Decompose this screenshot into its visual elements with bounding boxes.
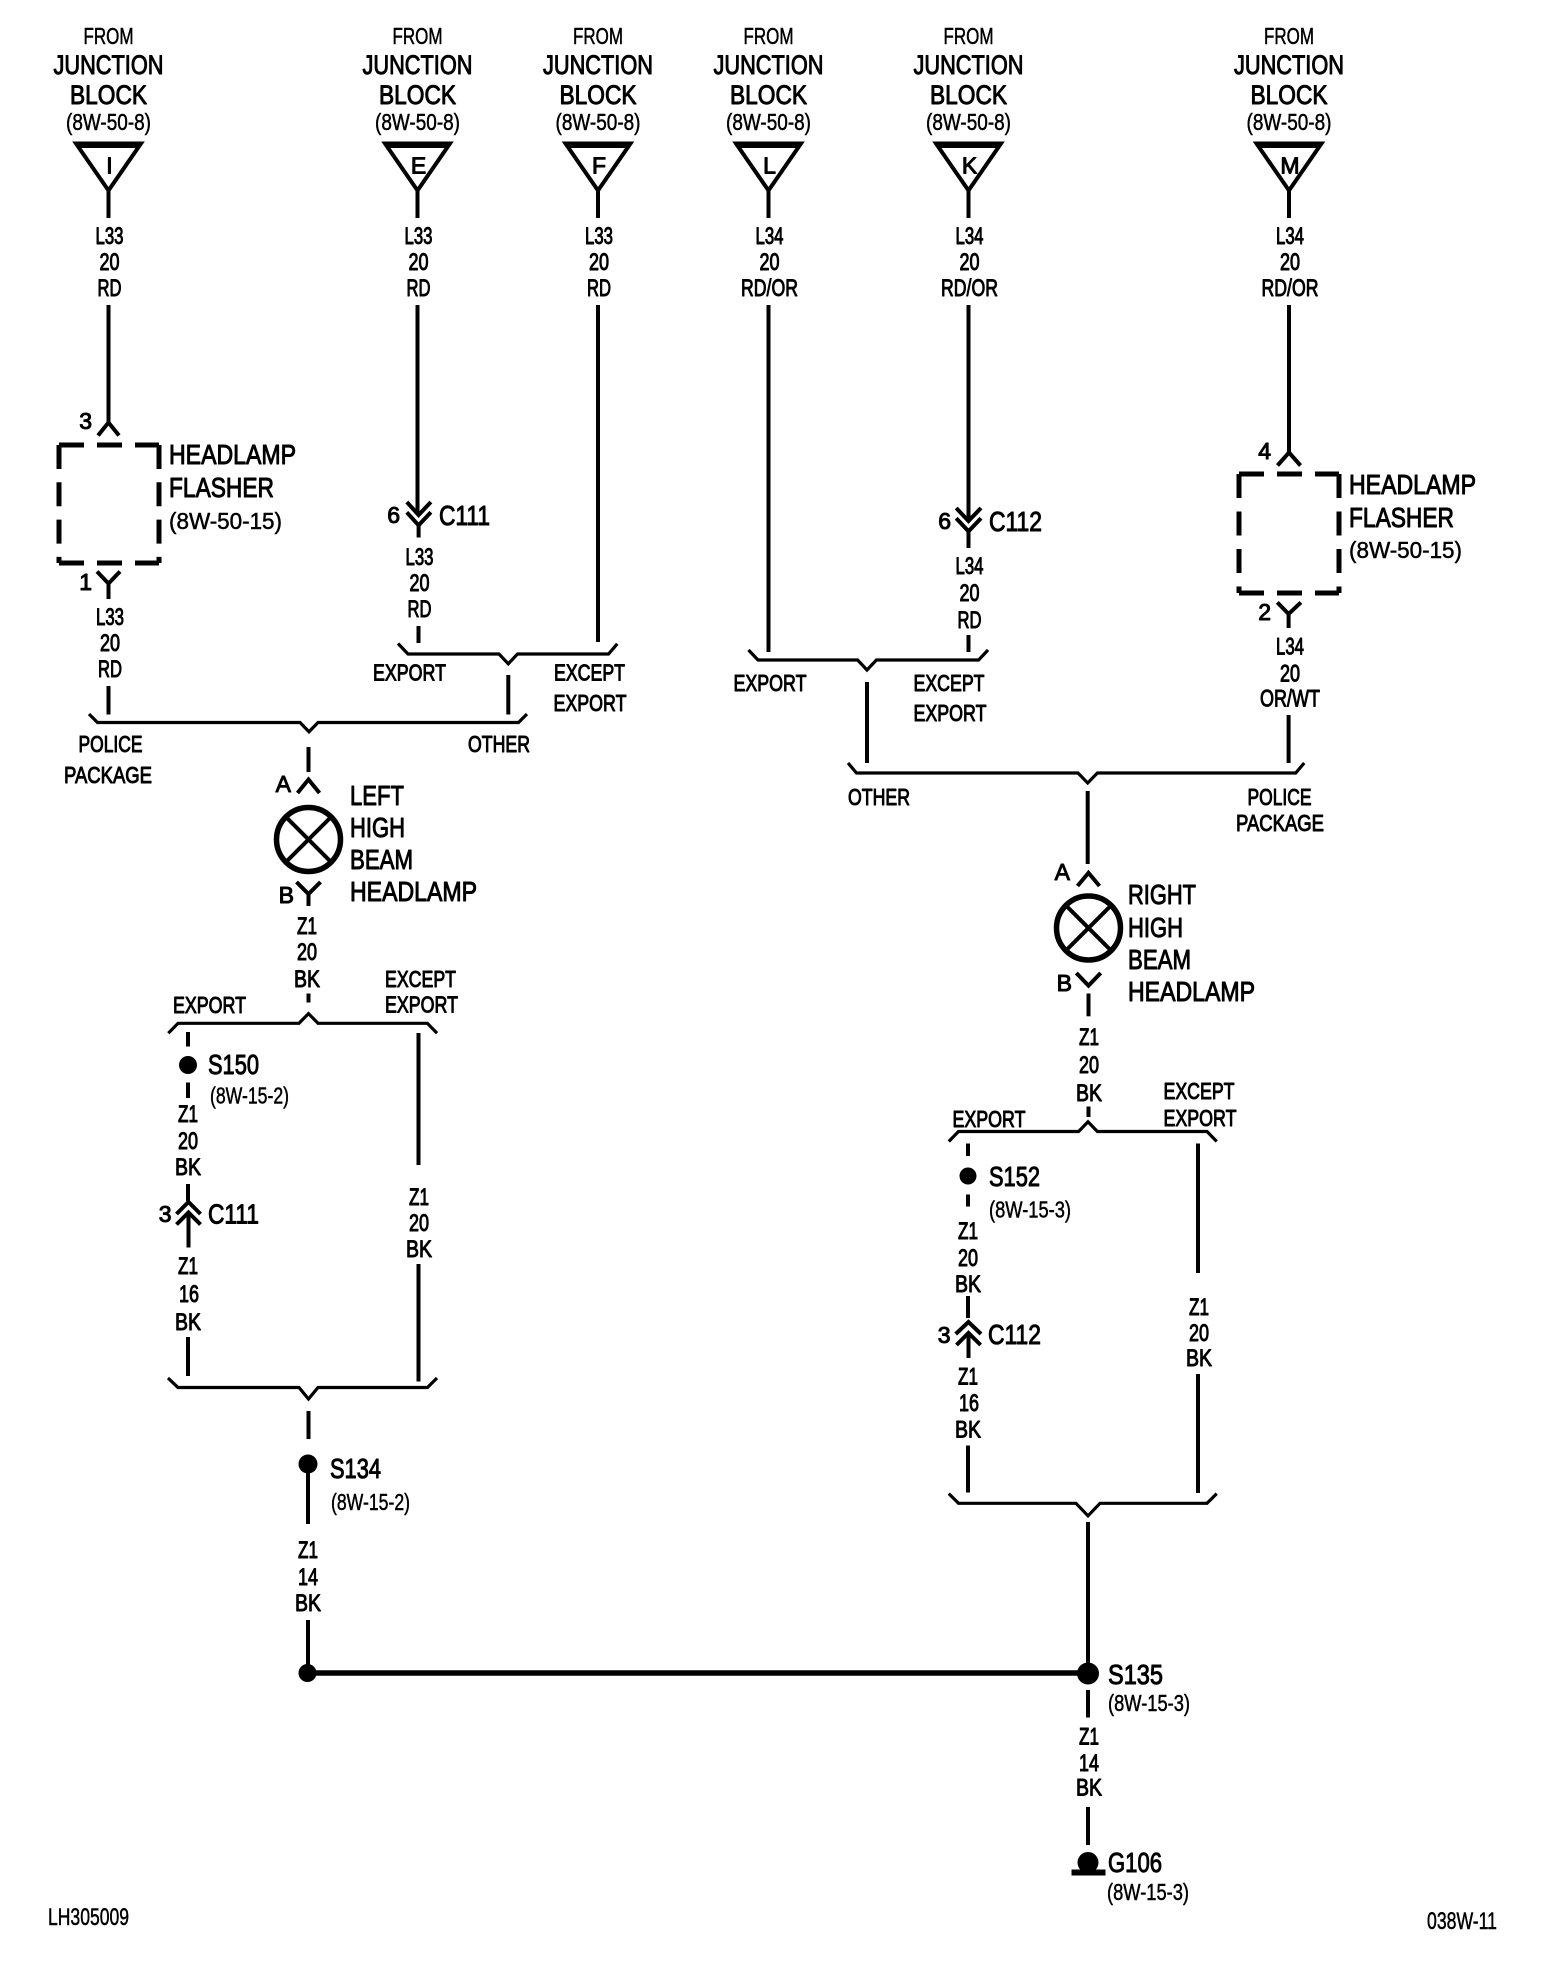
wire label L34 20 RD/OR (column L) [741, 223, 798, 302]
svg-text:RIGHT: RIGHT [1128, 879, 1196, 910]
wire label Z1 16 BK (below C111 pin 3) [175, 1253, 201, 1336]
brace: EXPORT / EXCEPT EXPORT merge (left) [398, 644, 617, 664]
label: HEADLAMP FLASHER (8W-50-15) left [169, 439, 296, 534]
wire label Z1 16 BK (below C112 pin 3) [955, 1364, 981, 1444]
svg-text:M: M [1280, 153, 1299, 179]
svg-text:I: I [106, 153, 112, 179]
svg-text:BLOCK: BLOCK [1251, 80, 1328, 110]
node: FROM JUNCTION BLOCK feed L [714, 23, 824, 135]
wire segment column F [596, 305, 600, 642]
connector C111 pin 3 (in-line, export branch) [159, 1199, 259, 1248]
wire segment to export brace (column K) [967, 635, 971, 652]
svg-text:20: 20 [409, 249, 429, 276]
svg-text:G106: G106 [1108, 1847, 1162, 1878]
svg-text:20: 20 [589, 249, 609, 276]
svg-text:S150: S150 [208, 1049, 259, 1080]
headlamp flasher right (dashed box) [1239, 474, 1339, 593]
wire segment to left join brace (export side) [186, 1337, 190, 1376]
wire label L34 20 RD (below C112) [956, 553, 984, 634]
svg-text:Z1: Z1 [958, 1364, 978, 1391]
dashed wire below S152 [966, 1195, 970, 1207]
svg-text:OTHER: OTHER [468, 731, 530, 757]
label POLICE PACKAGE (left) [64, 731, 152, 788]
svg-text:BK: BK [294, 966, 320, 993]
svg-text:20: 20 [178, 1128, 198, 1155]
pin B connector (right headlamp) [1057, 970, 1101, 996]
svg-text:20: 20 [409, 1210, 429, 1237]
svg-text:HIGH: HIGH [1128, 912, 1183, 943]
svg-text:(8W-50-8): (8W-50-8) [556, 109, 641, 135]
pin 2 connector Y (headlamp flasher right) [1258, 599, 1301, 628]
wire label Z1 20 BK (left headlamp ground) [294, 913, 320, 993]
svg-text:20: 20 [960, 580, 980, 607]
splice S134 [299, 1453, 411, 1524]
dashed wire tick above left split brace [307, 994, 311, 1003]
pin A connector (right headlamp) [1055, 859, 1100, 886]
svg-text:14: 14 [1079, 1750, 1099, 1777]
wire label L34 20 OR/WT (flasher output right) [1260, 633, 1320, 712]
junction block triangle connector E [385, 144, 450, 191]
svg-text:20: 20 [410, 570, 430, 597]
wire segment below S135 [1086, 1690, 1090, 1718]
svg-text:16: 16 [959, 1390, 979, 1417]
svg-text:S152: S152 [989, 1161, 1040, 1192]
wire segment column L [767, 305, 771, 652]
svg-text:(8W-50-15): (8W-50-15) [169, 508, 282, 534]
wire segment except-export branch (right, upper) [1196, 1144, 1200, 1274]
wire stub below triangle M [1287, 190, 1291, 218]
junction block triangle connector L [736, 144, 801, 191]
svg-text:RD: RD [587, 275, 611, 302]
svg-text:S135: S135 [1108, 1659, 1163, 1690]
pin A connector (left headlamp) [276, 771, 320, 797]
svg-text:FROM: FROM [84, 23, 134, 49]
brace: EXPORT / EXCEPT EXPORT merge (right) [749, 650, 989, 670]
svg-text:BEAM: BEAM [1128, 944, 1191, 975]
svg-text:JUNCTION: JUNCTION [363, 50, 473, 80]
junction block triangle connector F [566, 144, 631, 191]
dashed wire below S150 [186, 1083, 190, 1099]
wire label Z1 14 BK (S135 to ground) [1076, 1724, 1102, 1802]
svg-text:Z1: Z1 [409, 1184, 429, 1211]
svg-text:C111: C111 [439, 500, 490, 531]
pin 1 connector Y (headlamp flasher left) [79, 569, 120, 599]
svg-text:L34: L34 [1276, 223, 1304, 250]
svg-text:A: A [276, 771, 292, 797]
svg-text:RD: RD [98, 275, 122, 302]
svg-text:Z1: Z1 [1079, 1024, 1099, 1051]
wire segment to bottom junction [306, 1620, 310, 1673]
svg-text:C112: C112 [989, 506, 1042, 537]
svg-text:POLICE: POLICE [79, 731, 143, 757]
svg-text:RD: RD [407, 275, 431, 302]
svg-text:C111: C111 [208, 1199, 259, 1230]
svg-text:3: 3 [938, 1322, 951, 1348]
svg-text:(8W-50-8): (8W-50-8) [1247, 109, 1332, 135]
wire segment to export brace (column E) [417, 626, 421, 643]
svg-text:BK: BK [295, 1590, 321, 1617]
svg-text:EXCEPT: EXCEPT [554, 660, 625, 686]
svg-text:20: 20 [1079, 1052, 1099, 1079]
svg-text:(8W-15-2): (8W-15-2) [210, 1083, 289, 1109]
svg-text:L: L [763, 153, 776, 179]
dashed wire to splice S150 [186, 1032, 190, 1047]
svg-text:FLASHER: FLASHER [1349, 502, 1454, 533]
svg-text:L34: L34 [956, 553, 984, 580]
dashed wire tick above right split brace [1087, 1107, 1091, 1118]
label POLICE PACKAGE (right) [1236, 784, 1324, 836]
svg-text:(8W-15-3): (8W-15-3) [989, 1197, 1071, 1223]
svg-text:L33: L33 [96, 604, 124, 631]
wire label L33 20 RD (column F) [585, 223, 613, 302]
wire label Z1 20 BK (S152 branch) [955, 1218, 981, 1298]
svg-text:20: 20 [1280, 661, 1300, 688]
svg-text:BK: BK [955, 1271, 981, 1298]
svg-text:RD: RD [408, 596, 432, 623]
svg-text:(8W-50-15): (8W-50-15) [1349, 537, 1462, 563]
svg-text:1: 1 [79, 569, 92, 595]
svg-text:HIGH: HIGH [350, 812, 405, 843]
svg-text:14: 14 [298, 1564, 318, 1591]
svg-text:BLOCK: BLOCK [930, 80, 1007, 110]
svg-text:RD/OR: RD/OR [741, 275, 798, 302]
svg-text:Z1: Z1 [298, 1537, 318, 1564]
svg-text:6: 6 [938, 508, 951, 534]
wire: bottom horizontal run to S135 [308, 1670, 1089, 1676]
svg-text:(8W-50-8): (8W-50-8) [926, 109, 1011, 135]
pin 4 connector chevron (headlamp flasher right) [1258, 438, 1300, 466]
wire segment to ground G106 [1086, 1807, 1090, 1845]
lamp U2: RIGHT HIGH BEAM HEADLAMP symbol [1057, 896, 1121, 960]
svg-text:RD: RD [98, 656, 122, 683]
svg-text:C112: C112 [988, 1319, 1041, 1350]
svg-text:FROM: FROM [744, 23, 794, 49]
wire to splice S134 [307, 1411, 311, 1439]
svg-text:PACKAGE: PACKAGE [1236, 810, 1324, 836]
label EXCEPT EXPORT (right merge) [914, 670, 987, 726]
svg-text:16: 16 [179, 1281, 199, 1308]
wire label L34 20 RD/OR (column M) [1262, 223, 1319, 302]
label EXCEPT EXPORT (left merge) [554, 660, 627, 717]
svg-text:(8W-15-3): (8W-15-3) [1107, 1879, 1189, 1905]
node: FROM JUNCTION BLOCK feed E [363, 23, 473, 135]
wire label L34 20 RD/OR (column K) [941, 223, 998, 302]
label: HEADLAMP FLASHER (8W-50-15) right [1349, 469, 1476, 563]
svg-text:EXPORT: EXPORT [953, 1106, 1026, 1132]
svg-text:FLASHER: FLASHER [169, 472, 274, 503]
svg-text:EXPORT: EXPORT [554, 690, 627, 716]
svg-text:HEADLAMP: HEADLAMP [350, 876, 477, 907]
svg-text:EXCEPT: EXCEPT [385, 966, 456, 992]
svg-text:A: A [1055, 859, 1071, 885]
wire down to splice S135 [1086, 1522, 1090, 1673]
pin 3 connector chevron (headlamp flasher left) [79, 408, 119, 436]
svg-text:BLOCK: BLOCK [379, 80, 456, 110]
svg-text:JUNCTION: JUNCTION [714, 50, 824, 80]
svg-text:B: B [1057, 970, 1072, 996]
svg-text:3: 3 [159, 1201, 172, 1227]
dashed wire to splice S152 [966, 1144, 970, 1157]
label EXCEPT EXPORT (left split) [385, 966, 458, 1018]
wire segment above C111 pin 3 [186, 1184, 190, 1201]
wire segment column M [1287, 305, 1291, 452]
svg-text:EXPORT: EXPORT [1164, 1105, 1237, 1131]
svg-text:Z1: Z1 [1079, 1724, 1099, 1751]
svg-text:EXPORT: EXPORT [373, 660, 446, 686]
wire label L33 20 RD (column E) [405, 223, 433, 302]
label EXCEPT EXPORT (right split) [1164, 1078, 1237, 1131]
svg-text:JUNCTION: JUNCTION [914, 50, 1024, 80]
wire segment to right big brace (column M) [1287, 715, 1291, 763]
svg-text:BK: BK [1076, 1775, 1102, 1802]
node: FROM JUNCTION BLOCK feed M [1234, 23, 1344, 135]
wire segment to police-package brace [107, 686, 111, 715]
svg-text:(8W-50-8): (8W-50-8) [66, 109, 151, 135]
svg-text:JUNCTION: JUNCTION [543, 50, 653, 80]
svg-text:2: 2 [1258, 599, 1271, 625]
svg-text:(8W-15-2): (8W-15-2) [331, 1489, 410, 1515]
wire segment below right headlamp pin B [1087, 994, 1091, 1017]
svg-text:L33: L33 [405, 223, 433, 250]
wire segment to right join brace (export side) [966, 1446, 970, 1493]
wire label L33 20 RD (flasher output) [96, 604, 124, 683]
svg-text:L33: L33 [585, 223, 613, 250]
svg-text:S134: S134 [330, 1453, 381, 1484]
svg-text:EXCEPT: EXCEPT [914, 670, 985, 696]
svg-text:E: E [411, 153, 426, 179]
connector C111 pin 6 (in-line, column E) [387, 500, 490, 538]
junction node at bottom left [299, 1664, 317, 1682]
svg-text:OTHER: OTHER [848, 784, 910, 810]
svg-text:6: 6 [387, 502, 400, 528]
wire segment column I [107, 305, 111, 422]
ground G106 [1072, 1847, 1190, 1905]
wire segment except-export branch (left, lower) [417, 1264, 421, 1382]
svg-text:K: K [962, 153, 978, 179]
wire label Z1 20 BK (S150 branch) [175, 1101, 201, 1181]
svg-text:BK: BK [1186, 1345, 1212, 1372]
svg-text:20: 20 [100, 249, 120, 276]
svg-text:JUNCTION: JUNCTION [1234, 50, 1344, 80]
junction block triangle connector K [936, 144, 1001, 191]
wire to left headlamp pin A [307, 747, 311, 772]
svg-text:Z1: Z1 [178, 1101, 198, 1128]
svg-text:038W-11: 038W-11 [1427, 1908, 1497, 1935]
brace: POLICE PACKAGE / OTHER (left) [89, 714, 527, 732]
svg-text:JUNCTION: JUNCTION [54, 50, 164, 80]
svg-text:(8W-50-8): (8W-50-8) [726, 109, 811, 135]
svg-text:4: 4 [1258, 438, 1271, 464]
svg-text:EXCEPT: EXCEPT [1164, 1078, 1235, 1104]
wire segment column E [416, 305, 420, 513]
svg-text:Z1: Z1 [1189, 1294, 1209, 1321]
pin B connector (left headlamp) [279, 882, 321, 908]
svg-text:FROM: FROM [573, 23, 623, 49]
brace: split EXPORT / EXCEPT EXPORT (right, inverted) [949, 1122, 1217, 1142]
node: FROM JUNCTION BLOCK feed K [914, 23, 1024, 135]
svg-text:BLOCK: BLOCK [560, 80, 637, 110]
wire segment except-export branch (left, upper) [417, 1033, 421, 1165]
wire: OTHER branch down to right big brace [865, 682, 869, 763]
svg-text:BK: BK [955, 1417, 981, 1444]
connector C112 pin 6 (in-line, column K) [938, 506, 1042, 548]
wire: OTHER branch down to police-package brace [506, 675, 510, 715]
svg-text:HEADLAMP: HEADLAMP [169, 439, 296, 470]
lamp U1: LEFT HIGH BEAM HEADLAMP symbol [277, 808, 341, 872]
svg-text:FROM: FROM [393, 23, 443, 49]
svg-text:L33: L33 [96, 223, 124, 250]
svg-text:HEADLAMP: HEADLAMP [1128, 976, 1255, 1007]
brace: join to S134 (left) [168, 1378, 437, 1399]
svg-text:EXPORT: EXPORT [734, 670, 807, 696]
wire label Z1 14 BK (S134 to S135) [295, 1537, 321, 1617]
svg-text:Z1: Z1 [178, 1253, 198, 1280]
svg-text:20: 20 [1280, 249, 1300, 276]
junction block triangle connector M [1257, 144, 1322, 191]
svg-text:20: 20 [760, 249, 780, 276]
brace: join to S135 (right) [949, 1494, 1217, 1516]
svg-text:L34: L34 [756, 223, 784, 250]
node: FROM JUNCTION BLOCK feed F [543, 23, 653, 135]
svg-text:20: 20 [1189, 1320, 1209, 1347]
svg-text:FROM: FROM [944, 23, 994, 49]
svg-text:L34: L34 [956, 223, 984, 250]
wire label L33 20 RD (below C111) [406, 544, 434, 623]
svg-text:Z1: Z1 [297, 913, 317, 940]
wire stub below triangle K [967, 190, 971, 218]
label: RIGHT HIGH BEAM HEADLAMP [1128, 879, 1255, 1007]
svg-text:EXPORT: EXPORT [173, 992, 246, 1018]
svg-text:RD/OR: RD/OR [941, 275, 998, 302]
wire segment above C112 pin 3 [966, 1296, 970, 1318]
connector C112 pin 3 (in-line, export branch) [938, 1319, 1041, 1358]
svg-text:PACKAGE: PACKAGE [64, 762, 152, 788]
svg-text:LEFT: LEFT [350, 780, 404, 811]
brace: split EXPORT / EXCEPT EXPORT (left, inverted) [168, 1014, 437, 1034]
wire label L33 20 RD (column I) [96, 223, 124, 302]
svg-text:LH305009: LH305009 [48, 1904, 129, 1931]
svg-text:F: F [592, 153, 606, 179]
wire stub below triangle E [416, 190, 420, 218]
wire segment except-export branch (right, lower) [1196, 1374, 1200, 1493]
splice S152 [960, 1161, 1041, 1192]
wire stub below triangle I [107, 190, 111, 218]
wire segment column K [967, 305, 971, 519]
wire stub below triangle L [767, 190, 771, 218]
svg-text:BK: BK [175, 1154, 201, 1181]
svg-text:20: 20 [100, 630, 120, 657]
headlamp flasher left (dashed box) [59, 445, 159, 563]
svg-text:(8W-15-3): (8W-15-3) [1108, 1690, 1190, 1716]
svg-text:POLICE: POLICE [1248, 784, 1312, 810]
svg-text:EXPORT: EXPORT [385, 992, 458, 1018]
wire label Z1 20 BK (right headlamp ground) [1076, 1024, 1102, 1107]
svg-text:Z1: Z1 [958, 1218, 978, 1245]
label: LEFT HIGH BEAM HEADLAMP [350, 780, 477, 907]
svg-text:(8W-50-8): (8W-50-8) [375, 109, 460, 135]
svg-text:BK: BK [1076, 1080, 1102, 1107]
wire stub below triangle F [596, 190, 600, 218]
node: FROM JUNCTION BLOCK feed I [54, 23, 164, 135]
svg-text:BLOCK: BLOCK [70, 80, 147, 110]
svg-text:FROM: FROM [1264, 23, 1314, 49]
svg-text:EXPORT: EXPORT [914, 700, 987, 726]
svg-text:3: 3 [79, 408, 92, 434]
svg-text:BEAM: BEAM [350, 844, 413, 875]
svg-text:BK: BK [406, 1236, 432, 1263]
svg-text:20: 20 [297, 939, 317, 966]
svg-text:RD: RD [958, 607, 982, 634]
svg-text:L34: L34 [1276, 633, 1304, 660]
svg-text:20: 20 [958, 1245, 978, 1272]
splice S150 [179, 1049, 259, 1080]
brace: OTHER / POLICE PACKAGE (right) [848, 763, 1304, 783]
svg-text:20: 20 [960, 249, 980, 276]
svg-text:BK: BK [175, 1309, 201, 1336]
wire label Z1 20 BK (left except-export branch) [406, 1184, 432, 1263]
svg-text:OR/WT: OR/WT [1260, 686, 1320, 713]
svg-text:BLOCK: BLOCK [730, 80, 807, 110]
wire label Z1 20 BK (right except-export branch) [1186, 1294, 1212, 1372]
svg-text:L33: L33 [406, 544, 434, 571]
svg-text:RD/OR: RD/OR [1262, 275, 1319, 302]
junction block triangle connector I [76, 144, 141, 191]
svg-text:B: B [279, 882, 294, 908]
svg-text:HEADLAMP: HEADLAMP [1349, 469, 1476, 500]
splice S135 [1077, 1659, 1190, 1716]
wire to right headlamp pin A [1086, 791, 1090, 864]
